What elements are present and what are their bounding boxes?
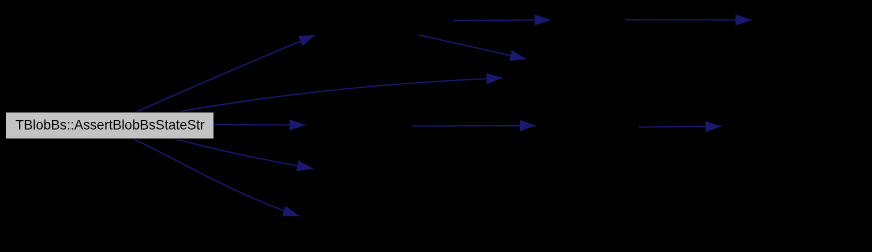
node box TBlobBs::AssertBlobBsStateStr (6, 112, 215, 139)
wire edge E5 box->node5 (133, 139, 299, 216)
wire edge E6 node1->node6 (453, 19, 551, 22)
svg-text:TBlobBs::AssertBlobBsStateStr: TBlobBs::AssertBlobBsStateStr (16, 118, 205, 133)
wire edge E7 node6->node7 (625, 19, 752, 21)
wire edge E1 box->node1 (136, 35, 315, 112)
wire edge E2 box->node2 (180, 78, 503, 112)
wire edge E3 box->node3 (214, 124, 306, 127)
wire edge E8 node1->node8 (419, 35, 526, 59)
wire edge E4 box->node4 (175, 139, 313, 169)
wire edge E10 node9->node10 (639, 125, 722, 128)
wire edge E9 node3->node9 (412, 125, 536, 127)
